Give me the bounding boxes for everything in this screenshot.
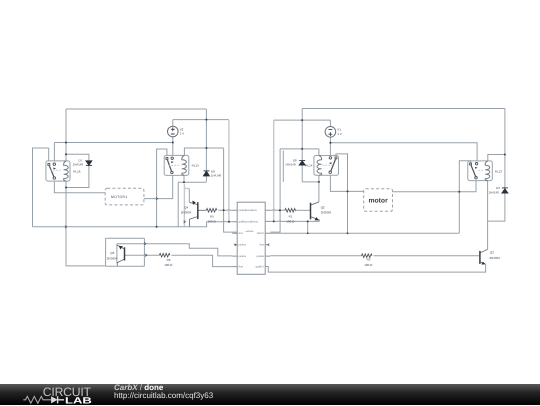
svg-text:pioRx(RxoutRx1): pioRx(RxoutRx1) (239, 209, 257, 212)
svg-text:Rx9: Rx9 (260, 244, 265, 247)
svg-text:1N4148: 1N4148 (211, 173, 222, 177)
svg-text:Q2: Q2 (321, 206, 325, 210)
svg-text:1N4148: 1N4148 (488, 191, 499, 195)
svg-text:R3: R3 (367, 258, 371, 262)
svg-text:2N3904: 2N3904 (107, 256, 118, 260)
svg-text:LAB: LAB (65, 395, 93, 405)
svg-text:RL13: RL13 (495, 170, 503, 174)
svg-text:100 Ω: 100 Ω (208, 219, 217, 223)
svg-text:2N3904: 2N3904 (489, 256, 500, 260)
svg-text:Q3: Q3 (490, 250, 494, 254)
svg-text:1N4148: 1N4148 (73, 163, 84, 167)
svg-text:VRx10: VRx10 (257, 232, 265, 235)
svg-text:Q4: Q4 (184, 206, 188, 210)
svg-text:pioRx8: pioRx8 (256, 255, 264, 258)
svg-text:2N3904: 2N3904 (321, 210, 332, 214)
svg-text:1 V: 1 V (180, 132, 185, 136)
svg-text:gridRx(1In)GPIx11: gridRx(1In)GPIx11 (239, 221, 259, 224)
svg-text:MOTOR1: MOTOR1 (111, 195, 128, 199)
svg-text:Q6: Q6 (110, 251, 114, 255)
svg-text:gridRx7: gridRx7 (256, 266, 265, 269)
svg-text:Rx6: Rx6 (239, 266, 244, 269)
svg-text:RL14: RL14 (305, 164, 313, 168)
svg-text:V1: V1 (337, 128, 341, 132)
svg-text:1N4148: 1N4148 (285, 162, 296, 166)
svg-text:D3: D3 (496, 186, 500, 190)
svg-text:R6: R6 (167, 258, 171, 262)
svg-text:motor: motor (368, 197, 388, 204)
svg-text:pioRx5: pioRx5 (239, 255, 247, 258)
svg-text:Rx2: Rx2 (239, 232, 244, 235)
svg-text:R1: R1 (289, 215, 293, 219)
svg-text:2N3904: 2N3904 (181, 210, 192, 214)
svg-text:100 Ω: 100 Ω (286, 219, 295, 223)
svg-text:RL15: RL15 (192, 164, 200, 168)
svg-text:arduino: arduino (246, 230, 255, 233)
svg-text:pioRx4: pioRx4 (239, 244, 247, 247)
svg-text:100 Ω: 100 Ω (364, 263, 373, 267)
svg-text:100 Ω: 100 Ω (164, 263, 173, 267)
svg-text:R5: R5 (210, 215, 214, 219)
svg-text:1 V: 1 V (337, 132, 342, 136)
svg-text:RL16: RL16 (73, 170, 81, 174)
